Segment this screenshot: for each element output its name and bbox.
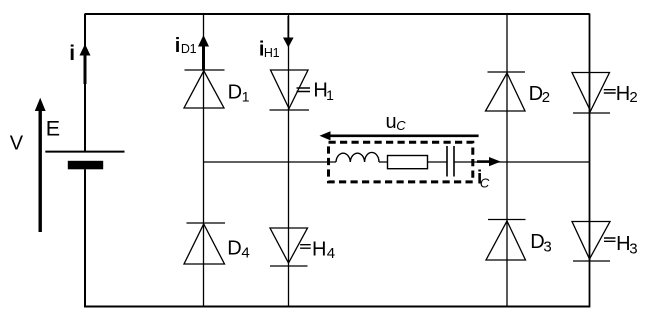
svg-text:i: i	[69, 42, 75, 65]
svg-text:2: 2	[629, 89, 637, 106]
svg-text:1: 1	[326, 87, 334, 103]
svg-text:3: 3	[543, 238, 551, 255]
svg-text:D1: D1	[181, 42, 197, 56]
svg-text:4: 4	[241, 245, 249, 262]
svg-text:4: 4	[327, 245, 335, 262]
svg-text:V: V	[10, 132, 24, 154]
svg-text:D: D	[227, 237, 241, 259]
svg-text:C: C	[396, 118, 406, 133]
svg-text:H: H	[312, 238, 326, 260]
svg-text:E: E	[46, 117, 60, 141]
svg-text:1: 1	[242, 89, 250, 105]
svg-text:2: 2	[542, 89, 550, 106]
svg-text:H1: H1	[264, 46, 280, 60]
svg-text:i: i	[175, 35, 181, 57]
svg-text:3: 3	[629, 240, 637, 257]
svg-text:C: C	[480, 175, 490, 190]
svg-text:H: H	[616, 83, 630, 105]
svg-text:u: u	[386, 111, 397, 133]
svg-text:D: D	[228, 82, 242, 104]
